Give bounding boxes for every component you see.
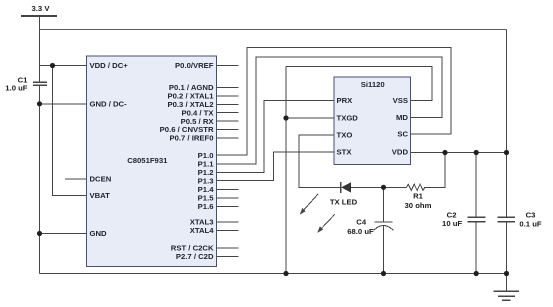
svg-text:MD: MD bbox=[396, 113, 408, 122]
svg-text:GND: GND bbox=[90, 229, 108, 238]
svg-text:R1: R1 bbox=[413, 191, 424, 200]
svg-text:P1.6: P1.6 bbox=[198, 202, 214, 211]
svg-text:10 uF: 10 uF bbox=[442, 219, 462, 228]
svg-text:VBAT: VBAT bbox=[90, 191, 111, 200]
svg-text:30 ohm: 30 ohm bbox=[405, 201, 432, 210]
svg-text:XTAL4: XTAL4 bbox=[190, 226, 214, 235]
svg-text:GND / DC-: GND / DC- bbox=[90, 100, 128, 109]
svg-text:Si1120: Si1120 bbox=[361, 80, 385, 89]
svg-text:0.1 uF: 0.1 uF bbox=[519, 220, 542, 229]
svg-text:VSS: VSS bbox=[393, 96, 408, 105]
svg-text:C4: C4 bbox=[356, 218, 367, 227]
svg-text:P1.3: P1.3 bbox=[198, 176, 214, 185]
svg-text:P1.0: P1.0 bbox=[198, 151, 214, 160]
svg-text:1.0 uF: 1.0 uF bbox=[5, 84, 28, 93]
svg-text:C3: C3 bbox=[526, 211, 536, 220]
svg-text:VDD: VDD bbox=[392, 148, 409, 157]
svg-text:VDD / DC+: VDD / DC+ bbox=[90, 61, 129, 70]
svg-text:P0.7 / IREF0: P0.7 / IREF0 bbox=[169, 134, 213, 143]
svg-text:TXO: TXO bbox=[337, 131, 353, 140]
svg-text:PRX: PRX bbox=[337, 96, 354, 105]
svg-text:68.0 uF: 68.0 uF bbox=[347, 227, 374, 236]
svg-text:DCEN: DCEN bbox=[90, 175, 112, 184]
svg-text:P0.0/VREF: P0.0/VREF bbox=[175, 61, 214, 70]
svg-text:C8051F931: C8051F931 bbox=[127, 156, 168, 165]
svg-text:3.3 V: 3.3 V bbox=[32, 4, 51, 13]
svg-text:STX: STX bbox=[337, 148, 353, 157]
svg-text:TX LED: TX LED bbox=[330, 198, 358, 207]
svg-text:P2.7 / C2D: P2.7 / C2D bbox=[176, 252, 214, 261]
svg-text:SC: SC bbox=[397, 130, 408, 139]
svg-text:TXGD: TXGD bbox=[337, 114, 359, 123]
